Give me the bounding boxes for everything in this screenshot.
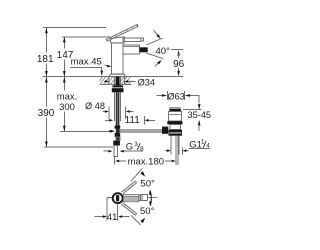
extension line rod level y=131.4 (60, 130, 111, 132)
extension line top (lever-top level y=27.6) (43, 27, 106, 29)
drain upper body (168, 112, 181, 122)
plan view: lever slot (116, 195, 119, 202)
svg-text:Ø34: Ø34 (138, 78, 155, 88)
faucet base escutcheon (109, 74, 125, 76)
horizontal pop-up rod (120, 130, 164, 132)
50deg lower leader line (131, 215, 145, 225)
Ø63 dimension arrows (156, 94, 199, 97)
dimension 96 vertical (177, 50, 180, 76)
Ø48 extension bars (108, 107, 110, 119)
deck top surface line (42, 76, 183, 78)
svg-text:181: 181 (37, 54, 54, 65)
Ø63 extension bars (166, 91, 168, 100)
supply pipes bundle (114, 92, 120, 140)
extension line spout level y=49.6 (171, 49, 183, 51)
40deg upper leader arrow (154, 30, 161, 39)
shank through deck (114, 77, 120, 86)
Ø34 extension bars (108, 77, 110, 85)
41 extension from circle (107, 196, 112, 198)
rotated handle upper (50deg) (121, 181, 136, 194)
label G3/8 (126, 141, 144, 153)
plan view: lever connector (139, 196, 141, 201)
faucet body (111, 43, 123, 74)
svg-text:Ø63: Ø63 (167, 91, 184, 101)
deck bottom surface line (100, 84, 132, 86)
small arrow to faucet body (105, 65, 112, 68)
svg-text:50°: 50° (140, 206, 155, 217)
extension line hose-end level y=147.1 (44, 146, 113, 148)
dimension 35-45 vertical (198, 96, 201, 132)
extension line head-top level y=36.8 (62, 36, 110, 38)
mounting washer (112, 85, 123, 87)
svg-text:96: 96 (173, 59, 185, 70)
horizontal lever (rest position) (123, 38, 143, 42)
dimension 147 vertical line (63, 37, 66, 77)
leader max.45 (70, 68, 103, 77)
hose pipe below fitting (116, 137, 120, 141)
svg-text:max.: max. (57, 92, 78, 103)
deck hatching left (100, 77, 115, 85)
drain flange seal (167, 121, 182, 124)
svg-text:35-45: 35-45 (188, 110, 212, 120)
Ø34 dimension arrows (104, 80, 136, 83)
pop-up rod tee fitting (115, 126, 121, 137)
dimension 390 vertical line (below deck) (45, 77, 48, 147)
max.180 extension bar left (113, 157, 115, 164)
max.180 dimension (115, 160, 176, 163)
plan view: centerline (148, 197, 157, 199)
rotation arc with arrows (149, 190, 152, 206)
svg-text:111: 111 (125, 115, 141, 126)
dimension max.300 vertical line (below deck) (63, 77, 66, 131)
svg-text:40°: 40° (156, 46, 171, 57)
drain plug top (170, 108, 180, 109)
drain lower body (170, 124, 181, 129)
dimension 181 vertical line (45, 28, 48, 77)
svg-text:41: 41 (107, 212, 118, 223)
G1 1/4 dimension bars and arrows (165, 148, 189, 155)
svg-text:max.45: max.45 (71, 57, 102, 68)
plan view: handle circle (113, 193, 123, 203)
spout inner line (123, 45, 140, 47)
G3/8 dimension arrows (103, 150, 127, 153)
dimension 111 arrows (105, 116, 155, 125)
drain side outlet block (162, 127, 168, 134)
max.180 extension bar right (175, 157, 177, 165)
plan view: lever knob (140, 194, 147, 200)
plan view: lever shaft (124, 195, 139, 202)
41 extension bar center (117, 204, 119, 220)
40deg lower arm (146, 53, 163, 59)
faucet head cap (111, 37, 125, 43)
svg-text:300: 300 (59, 102, 75, 113)
svg-text:390: 390 (38, 108, 55, 119)
raised lever (40deg position) (106, 25, 138, 42)
rotated handle lower (50deg) (121, 203, 136, 216)
40deg upper arm (146, 38, 162, 45)
dimension 41 arrows (95, 215, 130, 218)
mounting nut (112, 87, 124, 92)
Ø48 dimension arrows (103, 110, 134, 113)
svg-text:3: 3 (134, 141, 138, 148)
hose tail (114, 146, 117, 157)
extension line basin top y=109.7 (183, 109, 201, 111)
drain nut (169, 130, 182, 136)
spout housing (123, 45, 140, 54)
41 extension bar left (106, 197, 108, 220)
40deg lower leader arrow (155, 60, 162, 67)
G3/8 nut (113, 141, 120, 146)
svg-text:50°: 50° (140, 178, 155, 189)
50deg upper leader line (131, 168, 145, 181)
pop-up rod arrow (109, 130, 115, 133)
deck hatching right (121, 77, 131, 85)
drain tailpipe (171, 136, 179, 165)
svg-text:max.180: max.180 (128, 157, 164, 168)
label G1 1/4 (189, 139, 211, 151)
svg-text:Ø 48: Ø 48 (85, 101, 105, 111)
aerator tip (140, 47, 148, 52)
